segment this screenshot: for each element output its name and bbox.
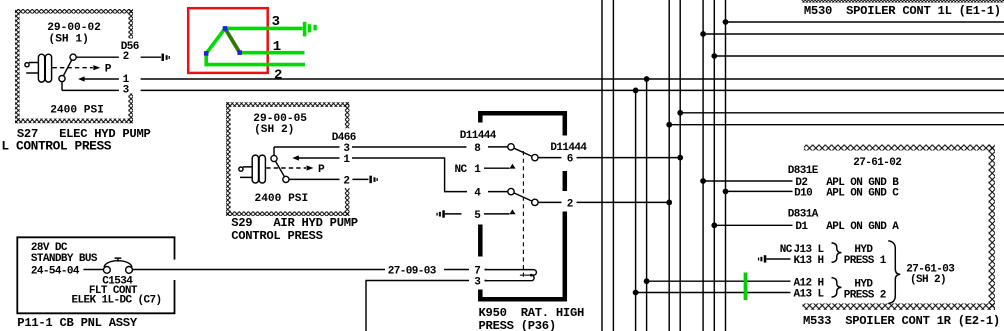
relay coil K950 (pins 7/3) [485, 270, 537, 281]
svg-text:M530 SPOILER CONT 1L (E1-1): M530 SPOILER CONT 1L (E1-1) [804, 4, 1001, 18]
enclosure box 29-00-05 (S29) [226, 102, 350, 216]
svg-text:5: 5 [474, 210, 481, 222]
relay K950 dashed enclosure [479, 111, 567, 302]
wire pin 3 of S29 [274, 146, 340, 148]
big brace 27-61-03 (SH 2) [888, 241, 955, 304]
wire pin 1 of S27 with left arrow [78, 76, 119, 81]
name label S27 ELEC HYD PUMP L CONTROL PRESS [1, 127, 150, 154]
pin D2 APL ON GND B [795, 177, 899, 189]
wire into circuit breaker [83, 269, 103, 271]
svg-text:PRESS (P36): PRESS (P36) [479, 319, 556, 331]
vertical bus wire 1 [601, 0, 603, 331]
svg-text:(SH 2): (SH 2) [910, 274, 946, 286]
svg-text:S29 AIR HYD PUMP: S29 AIR HYD PUMP [231, 216, 358, 230]
wire S29 pin 1 to K950 pin 4 (elbow) [352, 158, 467, 192]
svg-text:2: 2 [343, 175, 349, 187]
enclosure M530 bottom edge [802, 0, 1004, 3]
pressure port of switch S27 [25, 54, 52, 82]
wire K950 pin 2 to bus [577, 200, 673, 206]
svg-text:P: P [105, 64, 112, 76]
svg-text:24-54-04: 24-54-04 [31, 265, 80, 277]
svg-text:D831E: D831E [788, 165, 819, 177]
wire bus to D1 [711, 222, 792, 228]
vertical bus wire 7 [702, 0, 704, 331]
wire from S27 pin 3 to right edge [141, 89, 1004, 91]
junction dot on S27 pin 3 wire [633, 88, 639, 94]
svg-text:A13 L: A13 L [794, 289, 825, 301]
svg-text:27-09-03: 27-09-03 [388, 265, 437, 277]
svg-text:29-00-02: 29-00-02 [47, 22, 101, 34]
svg-text:P11-1 CB PNL ASSY: P11-1 CB PNL ASSY [17, 316, 138, 330]
svg-text:27-61-02: 27-61-02 [853, 157, 901, 169]
svg-text:(SH 1): (SH 1) [49, 34, 89, 46]
wire right at y113 [677, 110, 1004, 116]
relay upper contact (pins 8-6) [488, 144, 562, 161]
svg-text:3: 3 [272, 14, 280, 30]
wire to M530 (second) [700, 31, 1004, 37]
green highlighted wire 2 [206, 52, 305, 65]
svg-text:STANDBY BUS: STANDBY BUS [31, 253, 98, 265]
wire from S27 pin 1 to right edge [141, 78, 1004, 80]
svg-text:APL ON GND C: APL ON GND C [826, 187, 899, 199]
svg-text:D11444: D11444 [460, 130, 497, 142]
svg-text:CONTROL PRESS: CONTROL PRESS [231, 229, 322, 243]
wire S29 pin 3 to K950 pin 8 [352, 146, 467, 148]
wire bus to D2 [700, 178, 792, 184]
pressure actuation dashed line with P arrow (S27) [52, 64, 111, 76]
wire pin 2 of S29 [289, 178, 340, 180]
wire pin 3 of S27 (inside box) [62, 89, 119, 91]
svg-text:HYD: HYD [854, 278, 873, 290]
vertical bus wire from S27 pin 3 [635, 90, 637, 331]
wire to M530 (third) [711, 53, 1004, 59]
pressure port of switch S29 [239, 155, 266, 183]
vertical bus wire 8 [713, 0, 715, 331]
pin NC J13 L [780, 244, 825, 256]
svg-text:4: 4 [474, 188, 481, 200]
svg-text:NC: NC [455, 164, 468, 176]
brace HYD PRESS 1 [832, 243, 887, 267]
svg-text:PRESS 1: PRESS 1 [844, 255, 887, 267]
green highlighted wire 1 [240, 51, 305, 55]
wire pin 2 of S27 [76, 56, 119, 58]
svg-text:3: 3 [123, 84, 130, 96]
pin NC 1 label [455, 164, 482, 176]
relay actuator dashed line [522, 151, 524, 278]
wire bus to D10 [723, 189, 793, 195]
dark green switch arm (open side) [225, 28, 240, 52]
circuit breaker panel box P11-1 [17, 237, 174, 313]
pressure actuation dashed line with P arrow (S29) [266, 164, 325, 176]
svg-text:P: P [318, 164, 325, 176]
svg-text:D1: D1 [795, 221, 808, 233]
svg-text:2400 PSI: 2400 PSI [50, 104, 104, 116]
svg-text:APL ON GND A: APL ON GND A [826, 221, 899, 233]
wire pin 1 of S29 with left arrow [292, 155, 339, 160]
blue node handle (left) [204, 51, 209, 56]
red selection rectangle [188, 8, 268, 73]
enclosure box 29-00-02 (S27) [15, 9, 133, 123]
svg-text:K13 H: K13 H [794, 255, 824, 267]
green highlight bar on A12/A13 wires [744, 273, 748, 301]
brace HYD PRESS 2 [832, 278, 886, 302]
svg-text:1: 1 [474, 164, 481, 176]
wire stub from S29 pin 2 with termination [352, 176, 377, 183]
svg-text:D10: D10 [794, 187, 812, 199]
svg-text:ELEK 1L-DC (C7): ELEK 1L-DC (C7) [72, 294, 162, 306]
relay lower contact (pins 4-2) [488, 188, 562, 205]
svg-text:3: 3 [474, 276, 481, 288]
junction dot on S27 pin 1 wire [644, 76, 650, 82]
svg-text:NC: NC [780, 244, 793, 256]
switch S29 contacts and arm [271, 147, 289, 182]
NC contact stub pin 1 [484, 164, 516, 169]
svg-text:D11444: D11444 [550, 142, 587, 154]
pin D10 APL ON GND C [794, 187, 899, 199]
circuit breaker C1534 [104, 258, 133, 273]
green switch arm (closed side) [206, 28, 225, 53]
wire from K950 pin 3 down to bottom edge [366, 281, 487, 331]
vertical bus wire from S27 pin 1 [646, 79, 648, 331]
svg-text:1: 1 [273, 39, 281, 55]
name label S29 AIR HYD PUMP CONTROL PRESS [231, 216, 358, 243]
svg-text:(SH 2): (SH 2) [254, 124, 294, 136]
blue node handle (top) [223, 26, 228, 31]
wire from C1534 to K950 pin 7 [132, 269, 487, 271]
terminated stub to K13 [758, 255, 791, 262]
svg-text:2: 2 [123, 51, 129, 63]
vertical bus wire 9 [725, 0, 727, 331]
svg-text:L CONTROL PRESS: L CONTROL PRESS [1, 139, 111, 154]
bus label 28V DC STANDBY BUS [31, 242, 98, 265]
pin 5 stub with termination and NC triangle [436, 209, 515, 217]
svg-text:2: 2 [567, 198, 573, 210]
svg-text:M533 SPOILER CONT 1R (E2-1): M533 SPOILER CONT 1R (E2-1) [803, 314, 1000, 328]
blue node handle (right) [237, 50, 242, 55]
wire right at y125 [666, 122, 1004, 128]
svg-text:8: 8 [474, 143, 481, 155]
label 29-00-05 (SH 2) [253, 113, 307, 136]
svg-text:PRESS 2: PRESS 2 [844, 290, 886, 302]
svg-text:6: 6 [567, 154, 573, 166]
wire K950 pin 6 to bus [577, 155, 684, 161]
name label K950 RAT. HIGH PRESS (P36) [479, 306, 585, 331]
svg-text:A12 H: A12 H [794, 277, 824, 289]
enclosure box 27-61-02 [803, 145, 996, 310]
svg-text:2400 PSI: 2400 PSI [255, 193, 309, 205]
wire to M530 (top) [723, 19, 1004, 25]
svg-text:2: 2 [274, 67, 282, 83]
wire bus to A12 [644, 278, 791, 284]
wire stub from pin 2 with termination [141, 54, 170, 61]
switch S27 contacts and arm [59, 54, 76, 90]
wire bus to A13 [633, 290, 791, 296]
label 29-00-02 (SH 1) [47, 22, 101, 46]
label C1534 FLT CONT ELEK 1L-DC (C7) [72, 276, 162, 307]
vertical bus wire 5 [668, 0, 670, 331]
svg-text:D831A: D831A [788, 209, 819, 221]
vertical bus wire 2 [612, 0, 614, 331]
vertical bus wire 6 [679, 0, 681, 331]
pin D1 APL ON GND A [795, 221, 899, 233]
svg-text:1: 1 [343, 154, 350, 166]
green highlighted wire 3 with termination [225, 22, 317, 37]
